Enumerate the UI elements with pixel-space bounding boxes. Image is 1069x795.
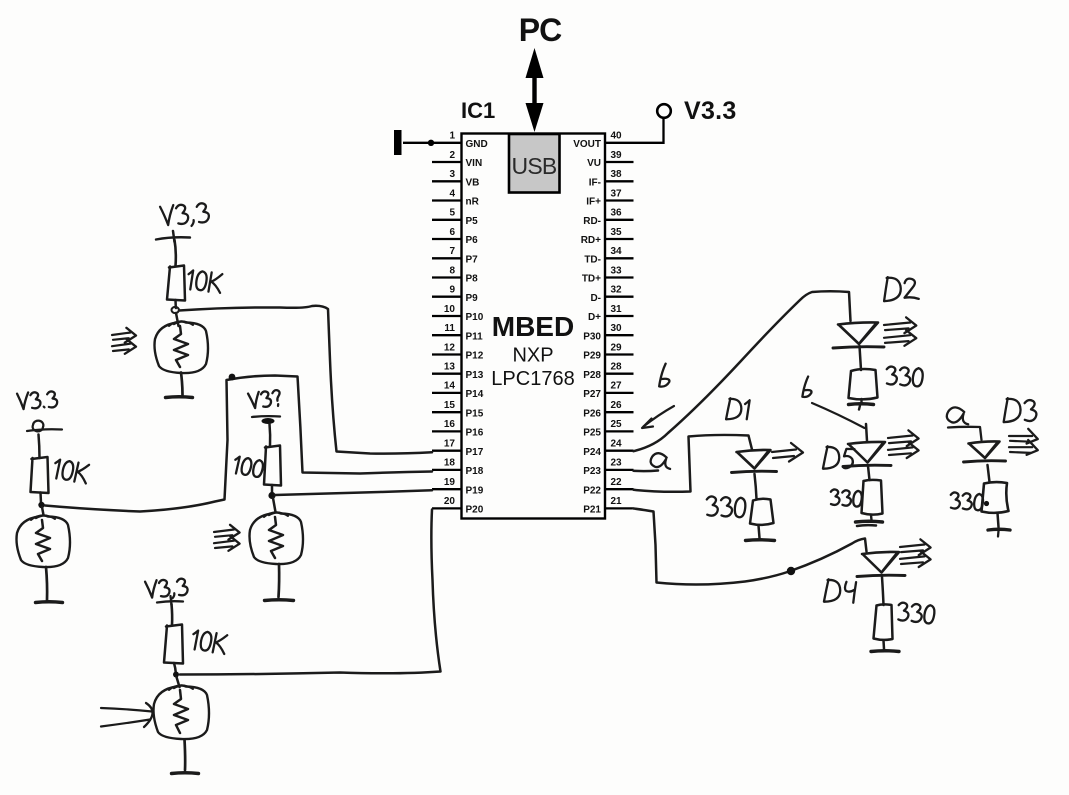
svg-text:P21: P21 xyxy=(583,505,601,516)
resistor 10K (B) xyxy=(31,457,49,493)
ground (D3) xyxy=(988,528,1010,532)
dot at 330 label (D3) xyxy=(984,501,989,506)
pin 7 P7 xyxy=(432,257,462,259)
pin 11 P11 xyxy=(432,334,462,336)
wire node C to pin19 P19 xyxy=(275,490,432,495)
wire node to LDR (B) xyxy=(42,507,44,515)
LDR photoresistor (A) xyxy=(155,322,209,374)
wire terminal to resistor (B) xyxy=(39,435,40,459)
wire node A to LDR (A) xyxy=(176,313,179,326)
svg-text:P5: P5 xyxy=(466,216,479,227)
wire node to LDR (D) xyxy=(177,677,180,687)
mbed module IC1 body xyxy=(462,134,606,519)
svg-text:P15: P15 xyxy=(466,408,484,419)
svg-text:38: 38 xyxy=(611,169,623,180)
ground (D2) xyxy=(860,399,862,404)
V3? supply label (sensor C) xyxy=(248,390,281,409)
pin 24 P24 xyxy=(605,450,634,452)
LDR photoresistor (B) xyxy=(17,516,71,568)
supply tick (D) xyxy=(157,601,183,602)
V3,3 supply label (sensor A) xyxy=(160,203,209,228)
svg-text:1: 1 xyxy=(449,131,455,142)
svg-text:26: 26 xyxy=(611,400,623,411)
V3.3 supply terminal circle xyxy=(657,104,671,118)
svg-text:P12: P12 xyxy=(466,351,484,362)
svg-text:20: 20 xyxy=(444,496,456,507)
wire resistor to ground (D3) xyxy=(998,513,999,527)
terminal blob (C) xyxy=(262,418,275,424)
10K value label (A) xyxy=(187,270,222,293)
wire resistor to ground (D1) xyxy=(759,526,760,539)
resistor 10K (D) xyxy=(164,625,183,664)
svg-text:P8: P8 xyxy=(466,274,479,285)
svg-text:D-: D- xyxy=(590,293,601,304)
wire pin1 GND to ground bar xyxy=(403,142,432,144)
svg-text:P10: P10 xyxy=(466,312,484,323)
svg-text:22: 22 xyxy=(611,477,623,488)
svg-text:P6: P6 xyxy=(466,235,479,246)
svg-text:24: 24 xyxy=(611,439,623,450)
svg-text:11: 11 xyxy=(444,323,455,334)
light arrow (D1) xyxy=(772,450,796,453)
svg-text:P16: P16 xyxy=(466,428,484,439)
resistor 100 (C) xyxy=(264,446,281,486)
svg-text:12: 12 xyxy=(444,342,456,353)
pin 38 IF- xyxy=(605,180,634,182)
light arrows (D4) xyxy=(900,545,925,548)
pin 15 P15 xyxy=(432,411,462,413)
330 value label (D5) xyxy=(830,489,862,507)
pin 5 P5 xyxy=(432,219,462,221)
D1 label xyxy=(726,398,750,421)
light arrows (D) xyxy=(101,708,152,712)
supply terminal circle (B) xyxy=(33,421,44,432)
pin 36 RD- xyxy=(605,219,634,221)
svg-text:LPC1768: LPC1768 xyxy=(491,368,574,390)
wire pin20 P20 down to node D xyxy=(180,510,441,675)
annotation line b to D5 anode xyxy=(812,403,865,428)
svg-text:P18: P18 xyxy=(466,466,484,477)
wire pin22 P22 to LED D1 xyxy=(634,435,753,492)
svg-text:5: 5 xyxy=(449,208,455,219)
USB connector block xyxy=(509,134,560,193)
svg-text:V3.3: V3.3 xyxy=(684,97,737,125)
net label b (D5) xyxy=(802,376,813,398)
svg-text:VB: VB xyxy=(466,178,480,189)
resistor 330 (D3) xyxy=(982,482,1009,513)
ground (D4) xyxy=(871,649,899,653)
svg-text:35: 35 xyxy=(611,227,623,238)
svg-text:P19: P19 xyxy=(466,485,484,496)
svg-text:31: 31 xyxy=(611,304,623,315)
pin 28 P28 xyxy=(605,373,634,375)
svg-text:P25: P25 xyxy=(583,428,601,439)
ground bar terminal at pin 1 xyxy=(394,130,402,155)
10K value label (B) xyxy=(53,459,89,484)
D2 label xyxy=(884,277,920,303)
svg-text:IF+: IF+ xyxy=(586,197,601,208)
ground (A) xyxy=(166,395,193,399)
light arrows (A) xyxy=(112,333,130,336)
svg-text:16: 16 xyxy=(444,419,456,430)
pin 22 P22 xyxy=(605,488,634,490)
svg-text:P7: P7 xyxy=(466,255,479,266)
light arrows (D3) xyxy=(1009,435,1032,437)
wire LDR to ground (D) xyxy=(183,740,186,771)
svg-text:21: 21 xyxy=(611,496,623,507)
svg-text:29: 29 xyxy=(611,342,623,353)
wire terminal to resistor (C) xyxy=(268,424,271,446)
wire resistor to node (B) xyxy=(39,493,42,504)
node (D) xyxy=(173,672,179,678)
net label a (D3) xyxy=(946,407,969,424)
wire D2 to resistor xyxy=(860,346,862,370)
pin 32 D- xyxy=(605,296,634,298)
svg-text:14: 14 xyxy=(444,381,456,392)
svg-text:P26: P26 xyxy=(583,408,601,419)
net label a (pin 23) xyxy=(650,453,671,469)
pin 31 D+ xyxy=(605,315,634,317)
svg-text:P27: P27 xyxy=(583,389,601,400)
light arrows (D5) xyxy=(888,436,913,439)
pin 9 P9 xyxy=(432,296,462,298)
svg-text:P9: P9 xyxy=(466,293,479,304)
svg-text:P23: P23 xyxy=(583,466,601,477)
svg-text:VOUT: VOUT xyxy=(573,139,601,150)
ground (D5) xyxy=(870,515,873,520)
D4 label xyxy=(824,579,856,605)
wire node to LDR (C) xyxy=(273,498,276,512)
LED D3 xyxy=(969,441,1000,458)
svg-text:17: 17 xyxy=(444,439,456,450)
wire LDR to ground (B) xyxy=(46,567,47,600)
pin 17 P17 xyxy=(432,450,462,452)
svg-text:25: 25 xyxy=(611,419,623,430)
wire pin40 VOUT to V3.3 terminal xyxy=(634,119,664,143)
svg-text:23: 23 xyxy=(611,458,623,469)
svg-text:40: 40 xyxy=(611,131,623,142)
wire resistor to node (A) xyxy=(174,300,177,308)
pin 13 P13 xyxy=(432,373,462,375)
LDR photoresistor (D) xyxy=(154,686,210,740)
wire D3 to resistor xyxy=(988,465,990,482)
svg-text:P11: P11 xyxy=(466,331,484,342)
svg-text:D+: D+ xyxy=(588,312,601,323)
svg-text:MBED: MBED xyxy=(492,311,574,342)
pin 33 TD+ xyxy=(605,276,634,278)
pin 14 P14 xyxy=(432,392,462,394)
D5 label xyxy=(823,446,854,472)
svg-text:18: 18 xyxy=(444,458,456,469)
svg-text:P24: P24 xyxy=(583,447,601,458)
wire a to LED D3 anode xyxy=(948,427,982,440)
pin 6 P6 xyxy=(432,238,462,240)
resistor 330 (D4) xyxy=(874,604,893,640)
100 value label (C) xyxy=(233,456,264,478)
330 value label (D1) xyxy=(706,496,746,518)
svg-text:P30: P30 xyxy=(583,331,601,342)
ground (D) xyxy=(172,771,199,775)
stub wire pin23 P23 xyxy=(634,469,659,472)
svg-text:P13: P13 xyxy=(466,370,484,381)
node dot (C) xyxy=(268,492,275,499)
svg-text:P22: P22 xyxy=(583,485,601,496)
wire LDR to ground (A) xyxy=(181,373,183,396)
svg-text:9: 9 xyxy=(449,285,455,296)
svg-text:39: 39 xyxy=(611,150,623,161)
supply tick (C) xyxy=(252,415,280,418)
pin 27 P27 xyxy=(605,392,634,394)
wire node A to pin17 P17 xyxy=(179,306,432,454)
LED D1 xyxy=(737,450,771,469)
svg-text:P17: P17 xyxy=(466,447,484,458)
junction dot on GND wire xyxy=(428,140,434,146)
wire D4 to resistor xyxy=(882,577,884,605)
pin 23 P23 xyxy=(605,469,634,471)
pin 30 P30 xyxy=(605,334,634,336)
wire resistor to node (D) xyxy=(174,663,176,673)
svg-text:8: 8 xyxy=(449,265,455,276)
LED D2 xyxy=(838,322,878,344)
svg-text:7: 7 xyxy=(449,246,455,257)
svg-text:RD+: RD+ xyxy=(581,235,601,246)
svg-text:VU: VU xyxy=(587,158,601,169)
pin 10 P10 xyxy=(432,315,462,317)
pin 35 RD+ xyxy=(605,238,634,240)
pin 39 VU xyxy=(605,161,634,163)
pin 29 P29 xyxy=(605,353,634,355)
330 value label (D4) xyxy=(897,602,935,624)
pin 2 VIN xyxy=(432,161,462,163)
svg-text:P14: P14 xyxy=(466,389,484,400)
resistor 330 (D2) xyxy=(849,369,878,399)
pin 26 P26 xyxy=(605,411,634,413)
svg-text:32: 32 xyxy=(611,285,623,296)
svg-text:3: 3 xyxy=(449,169,455,180)
svg-text:RD-: RD- xyxy=(583,216,601,227)
blob on wire corner (B) xyxy=(229,374,236,381)
node dot (A) xyxy=(172,307,179,313)
LED D5 xyxy=(848,442,885,463)
pin 1 GND xyxy=(432,142,462,144)
wire node B to pin18 P18 xyxy=(45,376,432,512)
svg-text:13: 13 xyxy=(444,362,456,373)
pin 3 VB xyxy=(432,180,462,182)
wire pin24 P24 up to LED D2 xyxy=(634,291,851,451)
svg-text:PC: PC xyxy=(519,12,562,48)
junction blob on D4 wire xyxy=(787,567,795,575)
node dot (B) xyxy=(38,502,44,508)
svg-text:IC1: IC1 xyxy=(461,98,495,123)
pin 25 P25 xyxy=(605,430,634,432)
USB link double arrow to PC xyxy=(526,48,544,132)
V3,3 supply label (sensor D) xyxy=(145,578,188,600)
svg-text:33: 33 xyxy=(611,265,623,276)
pin 21 P21 xyxy=(605,507,634,509)
pin 34 TD- xyxy=(605,257,634,259)
svg-text:USB: USB xyxy=(512,153,557,179)
svg-text:6: 6 xyxy=(449,227,455,238)
svg-text:36: 36 xyxy=(611,208,623,219)
svg-text:TD+: TD+ xyxy=(582,274,601,285)
light arrows (C) xyxy=(214,530,234,533)
svg-text:10: 10 xyxy=(444,304,456,315)
svg-text:30: 30 xyxy=(611,323,623,334)
ground (C) xyxy=(265,598,294,602)
wire LDR to ground (C) xyxy=(277,564,280,597)
svg-text:IF-: IF- xyxy=(589,178,601,189)
supply tick (sensor A) xyxy=(156,237,190,239)
pin 20 P20 xyxy=(432,507,462,509)
svg-text:VIN: VIN xyxy=(466,158,483,169)
svg-text:GND: GND xyxy=(466,139,488,150)
svg-text:37: 37 xyxy=(611,188,623,199)
LED D4 xyxy=(862,552,899,573)
light arrows (D2) xyxy=(884,323,910,326)
wire pin21 P21 to LED D4 xyxy=(634,509,867,585)
ground (B) xyxy=(36,600,63,604)
svg-text:TD-: TD- xyxy=(584,255,601,266)
resistor 330 (D5) xyxy=(862,480,883,515)
pin 40 VOUT xyxy=(605,142,634,144)
svg-text:34: 34 xyxy=(611,246,623,257)
pin 4 nR xyxy=(432,199,462,201)
pin 37 IF+ xyxy=(605,199,634,201)
resistor 330 (D1) xyxy=(750,499,774,525)
svg-text:P20: P20 xyxy=(466,505,484,516)
330 value label (D3) xyxy=(950,492,984,511)
pin 16 P16 xyxy=(432,430,462,432)
wire V3,3 to resistor (A) xyxy=(175,240,176,266)
svg-text:27: 27 xyxy=(611,381,623,392)
wire to LED D5 anode xyxy=(866,424,867,441)
10K value label (D) xyxy=(191,630,227,654)
svg-text:28: 28 xyxy=(611,362,623,373)
330 value label (D2) xyxy=(886,366,923,387)
wire D5 to resistor xyxy=(868,466,870,480)
pin 19 P19 xyxy=(432,488,462,490)
D3 label xyxy=(1004,398,1038,424)
annotation arrow b to pin25 xyxy=(644,406,675,427)
wire tick to resistor (D) xyxy=(170,604,173,625)
net label b (pin 25) xyxy=(659,363,672,388)
pin 8 P8 xyxy=(432,276,462,278)
wire resistor to node (C) xyxy=(271,485,274,493)
LDR photoresistor (C) xyxy=(250,513,304,565)
svg-text:19: 19 xyxy=(444,477,456,488)
pin 18 P18 xyxy=(432,469,462,471)
svg-text:nR: nR xyxy=(466,197,480,208)
resistor 10K (A) xyxy=(167,266,185,301)
svg-text:4: 4 xyxy=(449,188,455,199)
wire resistor to ground (D4) xyxy=(882,641,885,650)
wire D1 to resistor xyxy=(755,474,757,499)
svg-text:P29: P29 xyxy=(583,351,601,362)
svg-text:2: 2 xyxy=(449,150,455,161)
svg-text:15: 15 xyxy=(444,400,456,411)
svg-text:P28: P28 xyxy=(583,370,601,381)
V3.3 supply label (sensor B) xyxy=(17,391,57,409)
ground (D1) xyxy=(746,538,775,542)
pin 12 P12 xyxy=(432,353,462,355)
svg-text:NXP: NXP xyxy=(512,345,553,367)
